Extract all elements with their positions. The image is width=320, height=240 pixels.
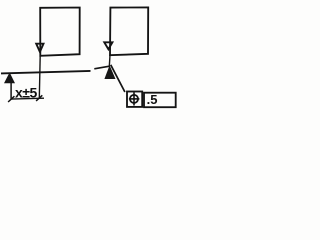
left tick (8, 96, 14, 102)
fcf cell 2 box (144, 93, 176, 108)
svg-text:x±5: x±5 (15, 84, 37, 100)
right part outline (110, 7, 148, 55)
fcf cell 1 box (127, 92, 142, 107)
left open arrow symbol (36, 44, 43, 52)
right leader extension line (108, 55, 111, 67)
position symbol vertical bar (133, 92, 135, 105)
left surface line (1, 71, 91, 74)
left datum stem (10, 83, 12, 99)
right surface line (94, 66, 109, 69)
right datum solid triangle (104, 65, 115, 79)
left leader extension line (38, 56, 41, 100)
left part outline (40, 8, 79, 56)
dimension line (11, 97, 44, 100)
svg-text:.5: .5 (147, 92, 158, 107)
position symbol circle (130, 95, 138, 103)
position symbol horizontal bar (129, 98, 140, 100)
right tick (36, 95, 42, 101)
fcf leader diagonal (111, 65, 125, 92)
left datum solid triangle (4, 72, 15, 83)
right open arrow symbol (104, 42, 112, 49)
